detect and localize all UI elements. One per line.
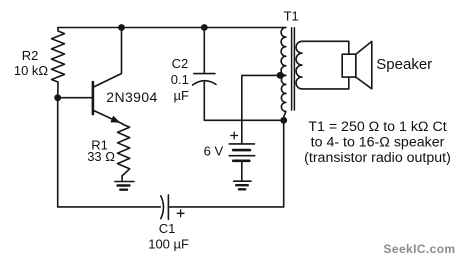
wire bottom rail left [58,206,161,208]
node center tap junction [277,72,284,79]
node primary bottom junction [280,117,287,124]
resistor R1 [118,124,130,181]
capacitor C2 [193,28,216,121]
ground R1 [115,182,134,190]
node C2 top junction [201,24,208,31]
ground battery [234,181,251,189]
svg-text:SeekIC.com: SeekIC.com [383,242,455,256]
wire center tap to battery [242,75,280,143]
transformer T1 core [292,28,295,110]
wire secondary top [302,41,349,54]
battery B1 6V [229,132,254,181]
svg-text:33 Ω: 33 Ω [87,149,115,164]
transistor Q1 2N3904 [93,28,123,125]
wire base [58,97,93,99]
svg-text:6 V: 6 V [204,144,224,159]
svg-text:10 kΩ: 10 kΩ [14,63,49,78]
svg-text:T1 = 250 Ω to 1 kΩ Ct: T1 = 250 Ω to 1 kΩ Ct [308,119,446,135]
svg-text:T1: T1 [284,9,299,24]
svg-text:µF: µF [173,88,188,103]
capacitor C1 [161,195,184,219]
wire left rail down [57,98,59,207]
svg-text:C1: C1 [159,221,176,236]
transformer T1 secondary winding [296,41,302,89]
wire primary bottom to bottom rail [283,120,285,207]
node base junction [54,94,61,101]
node collector junction [118,24,125,31]
svg-text:C2: C2 [172,56,189,71]
svg-text:100 µF: 100 µF [148,236,189,251]
svg-text:Speaker: Speaker [376,56,432,73]
wire C2 to primary bottom node [204,119,283,121]
transformer T1 primary winding [281,28,286,118]
svg-text:0.1: 0.1 [171,72,189,87]
svg-text:R2: R2 [22,48,39,63]
svg-text:to 4- to 16-Ω speaker: to 4- to 16-Ω speaker [311,134,445,150]
note T1 description [304,119,451,166]
wire secondary bottom [302,77,349,89]
speaker SPK [342,41,372,88]
wire bottom rail right [168,206,283,208]
resistor R2 [52,28,65,98]
svg-text:2N3904: 2N3904 [106,89,157,105]
svg-text:(transistor radio output): (transistor radio output) [304,150,451,166]
wire top rail [58,27,286,29]
